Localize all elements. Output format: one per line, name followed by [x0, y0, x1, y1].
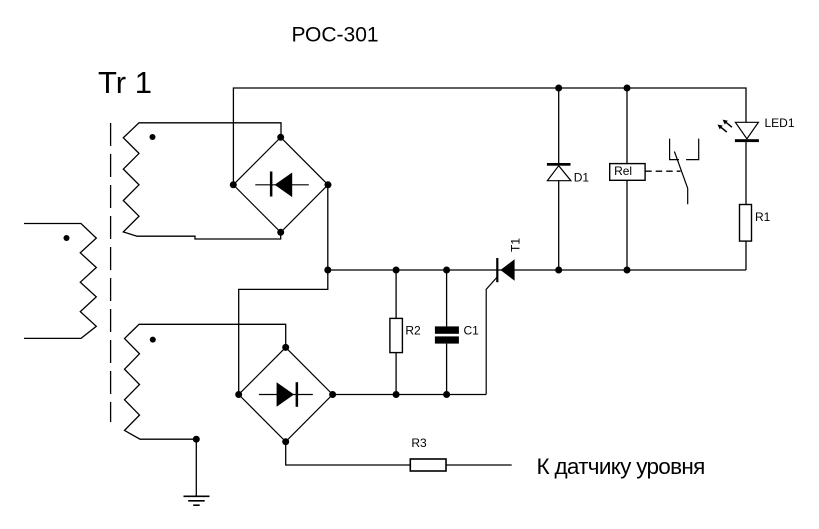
- svg-text:Tr 1: Tr 1: [98, 65, 152, 100]
- svg-text:D1: D1: [574, 170, 590, 184]
- svg-text:К датчику уровня: К датчику уровня: [537, 454, 705, 479]
- svg-text:R2: R2: [405, 324, 421, 338]
- svg-text:R1: R1: [755, 210, 771, 224]
- svg-text:T1: T1: [509, 238, 523, 252]
- svg-text:C1: C1: [464, 324, 480, 338]
- svg-text:LED1: LED1: [765, 116, 795, 130]
- svg-text:R3: R3: [411, 436, 427, 450]
- svg-text:Rel: Rel: [614, 164, 632, 178]
- svg-text:РОС-301: РОС-301: [292, 23, 379, 46]
